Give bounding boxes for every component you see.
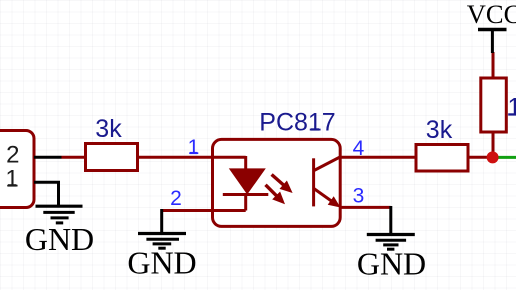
optocoupler U1 body [213,139,341,226]
resistor R2 [416,145,468,172]
pin 1 stub [34,182,59,205]
svg-text:4: 4 [353,137,365,160]
emission arrow 1 [272,175,293,194]
pin number 4 (U1) [353,137,365,160]
svg-text:VCC: VCC [467,0,516,29]
pin number 3 (U1) [353,185,365,208]
wire [492,52,495,78]
wire (U1 pin2 to GND2) [162,209,246,212]
wire [389,206,392,234]
value 3k (R1) [95,115,122,143]
wire [62,156,87,159]
svg-text:3k: 3k [426,116,453,144]
label VCC [467,0,516,29]
svg-text:2: 2 [6,142,19,169]
wire (U1 pin4 to R2) [340,156,417,159]
label GND3 [357,246,426,282]
label PC817 [259,109,335,137]
pin number 1 (U1) [188,136,200,159]
pin 2 stub [34,156,62,159]
value 3k (R2) [426,116,453,144]
svg-text:3: 3 [353,185,365,208]
phototransistor Q1 emitter [314,189,341,208]
LED D1 cathode lead [244,195,247,211]
ground GND1 [36,206,83,223]
svg-text:GND: GND [127,244,196,280]
svg-text:1k: 1k [508,94,516,122]
wire [160,209,163,233]
wire (green net) [493,156,516,159]
label GND2 [127,244,196,280]
wire [138,156,246,159]
LED D1 cathode bar [223,193,268,196]
wire [468,156,493,159]
value 1k (R3) [508,94,516,122]
phototransistor Q1 collector [314,157,340,171]
connector J1 [0,131,34,208]
junction [487,151,499,163]
LED D1 anode lead [244,156,247,170]
svg-text:GND: GND [25,221,94,257]
pin number 1 (connector) [5,166,18,193]
svg-text:3k: 3k [95,115,122,143]
emission arrow 2 [266,185,286,205]
label GND1 [25,221,94,257]
pin number 2 (U1) [170,187,182,210]
svg-text:1: 1 [5,166,18,193]
resistor R3 [481,78,507,132]
svg-text:2: 2 [170,187,182,210]
wire [492,132,495,158]
resistor R1 [86,144,138,171]
pin number 2 (connector) [6,142,19,169]
svg-text:GND: GND [357,246,426,282]
wire (U1 pin3 to GND3) [340,206,391,209]
phototransistor Q1 base bar [312,158,315,206]
svg-text:PC817: PC817 [259,109,335,137]
ground GND2 [138,234,186,249]
ground GND3 [367,235,415,250]
svg-text:1: 1 [188,136,200,159]
power symbol VCC [478,30,507,54]
LED D1 triangle [229,168,266,194]
